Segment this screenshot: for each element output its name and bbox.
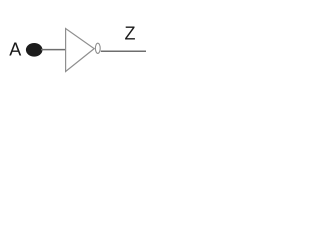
svg-text:Z: Z [125,24,136,44]
svg-text:A: A [9,39,21,59]
